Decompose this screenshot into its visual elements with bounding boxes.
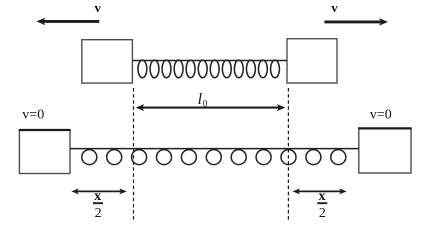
arrow x/2 left (double-headed)	[71, 188, 127, 194]
arrow l0 (double-headed natural-length arrow)	[136, 104, 286, 111]
svg-text:v=0: v=0	[370, 107, 392, 122]
arrow x/2 right (double-headed)	[293, 188, 347, 194]
dashed reference line left	[133, 88, 135, 220]
svg-text:x: x	[94, 189, 101, 204]
label x/2 right	[317, 189, 327, 221]
label l0	[198, 91, 208, 108]
svg-text:2: 2	[319, 206, 326, 221]
block D (bottom-right mass)	[358, 128, 412, 173]
svg-text:0: 0	[203, 99, 208, 109]
label x/2 left	[93, 189, 103, 221]
svg-text:x: x	[319, 189, 326, 204]
block B (top-right mass)	[287, 39, 337, 83]
block C (bottom-left mass)	[19, 130, 71, 174]
svg-text:v=0: v=0	[22, 107, 44, 122]
arrow v left (top-left velocity arrow)	[36, 18, 99, 26]
arrow v right (top-right velocity arrow)	[324, 18, 388, 26]
svg-text:v: v	[95, 0, 102, 15]
svg-text:l: l	[198, 91, 203, 108]
svg-text:2: 2	[95, 206, 102, 221]
svg-text:v: v	[331, 0, 338, 15]
block A (top-left mass)	[82, 40, 133, 83]
dashed reference line right	[287, 88, 289, 220]
spring top (compressed coil between A and B)	[132, 60, 287, 78]
spring bottom (stretched coil between C and D)	[70, 149, 359, 165]
